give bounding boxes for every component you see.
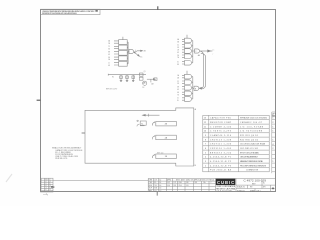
svg-text:3J: 3J — [177, 61, 179, 63]
svg-text:6F: 6F — [177, 52, 179, 54]
alignment tick on left edge — [82, 132, 85, 133]
svg-text:21-B: 21-B — [179, 185, 182, 187]
svg-text:1J: 1J — [108, 63, 110, 65]
svg-text:E: E — [41, 187, 42, 189]
gate B5 — [185, 97, 192, 102]
stub above block C1 — [122, 37, 124, 40]
svg-text:11: 11 — [204, 126, 206, 128]
svg-text:C61 JE105 20AL D4K R1AB: C61 JE105 20AL D4K R1AB — [240, 143, 266, 146]
svg-text:DRN: DRN — [149, 179, 152, 181]
stub above gate B1 — [186, 71, 188, 75]
gate A3 — [185, 49, 192, 54]
svg-text:SMALL ELECTRONIC ASSEMBLY: SMALL ELECTRONIC ASSEMBLY — [52, 146, 82, 149]
svg-text:1/4 100-929AB: 1/4 100-929AB — [240, 125, 264, 128]
svg-text:8: 8 — [205, 139, 206, 141]
svg-text:INTERPRET DWG PER MIL-STD-100: INTERPRET DWG PER MIL-STD-100 LATEST ISS… — [42, 12, 78, 15]
revision mark — [51, 187, 54, 188]
svg-text:CIRCUIT PAD ASSEMBLY: CIRCUIT PAD ASSEMBLY — [240, 156, 259, 159]
input stubs gates A1-A5 — [182, 39, 185, 64]
svg-text:R.L: R.L — [154, 182, 157, 184]
resistor RA1 — [120, 76, 123, 79]
svg-text:5-4: 5-4 — [159, 179, 161, 181]
svg-text:4B: 4B — [177, 78, 179, 80]
output junction node — [134, 52, 135, 53]
parts list table — [203, 115, 269, 171]
svg-text:4: 4 — [135, 50, 136, 52]
svg-text:5-8: 5-8 — [159, 188, 161, 190]
svg-text:K1: K1 — [141, 123, 143, 125]
svg-text:2B: 2B — [108, 43, 110, 45]
logic block C1 — [119, 40, 128, 45]
gate B3 — [185, 86, 192, 91]
svg-text:PER MIL-STD: PER MIL-STD — [55, 158, 68, 160]
wire drop at output — [150, 79, 152, 82]
connector symbol K1 — [137, 120, 146, 126]
svg-text:3E: 3E — [177, 86, 179, 88]
svg-text:185: 185 — [174, 185, 177, 187]
svg-text:7-4: 7-4 — [45, 187, 47, 189]
materials list grid — [173, 180, 216, 182]
output bus wire B — [192, 77, 194, 99]
svg-text:C62 J585 L15 101: C62 J585 L15 101 — [240, 148, 258, 150]
svg-text:CERAMIC 100 4/7: CERAMIC 100 4/7 — [240, 121, 262, 124]
svg-text:MANUFACTURERS BULK DETAIL: MANUFACTURERS BULK DETAIL — [240, 160, 263, 163]
svg-text:REV: REV — [45, 179, 48, 181]
svg-text:5J: 5J — [177, 98, 179, 100]
svg-text:FORM 101: FORM 101 — [237, 190, 245, 192]
combiner gate C6 — [129, 49, 134, 53]
svg-text:R4: R4 — [112, 76, 114, 78]
resistor module R2 — [152, 135, 176, 140]
title strip line — [53, 179, 148, 181]
svg-text:CUBIC: CUBIC — [217, 180, 234, 185]
title block — [148, 178, 276, 192]
svg-text:1/4 94750308B: 1/4 94750308B — [240, 131, 263, 133]
svg-text:13: 13 — [204, 118, 206, 120]
resistor RA3 — [132, 76, 135, 79]
svg-text:12: 12 — [204, 122, 206, 124]
svg-text:6F: 6F — [177, 89, 179, 91]
svg-text:WT: WT — [250, 187, 253, 189]
revision block cell text — [41, 178, 52, 191]
svg-text:PCB 2564-11 AS: PCB 2564-11 AS — [210, 169, 232, 172]
left logic block group — [114, 37, 143, 66]
svg-text:173: 173 — [174, 182, 177, 184]
svg-text:4-2564-32-B P3: 4-2564-32-B P3 — [210, 165, 231, 167]
logic block C5 — [119, 62, 128, 67]
svg-text:SPRAGUE 150D 105 X9020B2: SPRAGUE 150D 105 X9020B2 — [240, 117, 267, 120]
output wire with arrow — [147, 78, 154, 80]
svg-text:2N: 2N — [142, 87, 144, 89]
svg-text:CLAMP40 2-116: CLAMP40 2-116 — [210, 134, 231, 137]
dropper wire 3 — [132, 75, 134, 81]
approval scribbles below border — [43, 193, 48, 196]
svg-text:2: 2 — [205, 165, 206, 167]
svg-text:EPOXY CIRCUIT BOARD: EPOXY CIRCUIT BOARD — [240, 151, 260, 154]
combiner gate A6 — [195, 49, 200, 53]
right section grid — [235, 178, 237, 192]
company address lines — [216, 185, 236, 192]
svg-text:W.B: W.B — [154, 188, 157, 190]
svg-text:R21 R31 Q4 D1: R21 R31 Q4 D1 — [240, 135, 258, 137]
svg-text:P/N COMPONENT BULK SERVICES: P/N COMPONENT BULK SERVICES — [240, 165, 267, 167]
svg-text:100: 100 — [186, 182, 189, 184]
gate A4 — [185, 54, 192, 59]
combiner gate B6 — [194, 86, 199, 90]
capacitor mark 2 — [126, 80, 128, 83]
resistor module R3 — [152, 154, 176, 159]
output wire with arrow — [200, 50, 208, 52]
output bus wire C — [127, 42, 129, 64]
svg-text:8E: 8E — [108, 52, 110, 54]
svg-text:8L: 8L — [177, 100, 179, 102]
svg-text:20-B: 20-B — [179, 182, 182, 184]
input labels top group — [177, 38, 215, 66]
svg-text:2: 2 — [195, 51, 196, 53]
input stubs blocks C1-C5 — [114, 41, 119, 65]
svg-text:6-3: 6-3 — [45, 185, 47, 187]
svg-text:D: D — [41, 185, 42, 187]
fold mark bottom center — [156, 192, 158, 196]
svg-text:1E: 1E — [177, 50, 179, 52]
resistor RA2 — [126, 76, 129, 79]
svg-text:DT: DT — [49, 179, 51, 181]
svg-text:5-12: 5-12 — [167, 182, 170, 184]
drawing number — [237, 180, 274, 193]
svg-text:5-9: 5-9 — [159, 190, 161, 192]
terminal box — [154, 78, 157, 81]
wire fork upper with arrow — [135, 51, 141, 52]
fold mark top center — [157, 6, 159, 9]
svg-text:5: 5 — [205, 152, 206, 154]
svg-text:RL: RL — [49, 187, 51, 189]
svg-text:8-2: 8-2 — [45, 189, 47, 191]
dropper wire 2 — [126, 75, 128, 81]
svg-text:Q1: Q1 — [144, 71, 146, 73]
transistor Q1 — [143, 81, 147, 85]
svg-text:9: 9 — [205, 135, 206, 137]
svg-text:CR29111 1-406: CR29111 1-406 — [210, 144, 231, 146]
svg-text:CAPACITOR FXD: CAPACITOR FXD — [210, 117, 232, 120]
module outline — [82, 108, 194, 166]
wire from combiner A6 down to node B — [201, 53, 206, 89]
capacitor mark 1 — [120, 80, 122, 83]
svg-text:7: 7 — [205, 144, 206, 146]
gate A2 — [185, 44, 192, 49]
qty strip at right border — [272, 112, 276, 173]
bottom gate group — [182, 51, 206, 101]
notes text block — [52, 146, 83, 160]
svg-text:C 90875 4-293: C 90875 4-293 — [210, 131, 231, 133]
labels bias network — [106, 71, 154, 91]
svg-text:10: 10 — [204, 131, 206, 133]
svg-text:BR90674 3-204: BR90674 3-204 — [210, 152, 231, 154]
svg-text:C 20RNE 4-100: C 20RNE 4-100 — [210, 126, 231, 128]
logic block C2 — [119, 45, 128, 50]
gate B4 — [185, 91, 192, 96]
fold mark left middle — [37, 99, 41, 101]
svg-text:4-2: 4-2 — [45, 181, 47, 183]
svg-text:4-2564-31-B P2: 4-2564-31-B P2 — [210, 161, 231, 163]
arrowhead at combiner B6 output — [199, 87, 201, 89]
capacitor mark 3 — [132, 80, 134, 83]
gate A5 — [185, 61, 192, 66]
wire from combiner B6 up to output node — [201, 51, 204, 88]
svg-text:D.K: D.K — [154, 190, 157, 192]
svg-text:SHEET 1 OF 1: SHEET 1 OF 1 — [250, 190, 261, 192]
revision block — [41, 178, 54, 192]
sheet border frame — [41, 10, 276, 192]
svg-text:. . . . . . .: . . . . . . . — [261, 190, 269, 192]
input labels bottom group — [177, 74, 197, 102]
approvals section grid — [154, 178, 173, 192]
smudge bottom-left outside border — [6, 174, 12, 182]
company logo — [216, 179, 236, 185]
svg-text:4: 4 — [205, 157, 206, 159]
svg-text:CONNECTOR: CONNECTOR — [246, 170, 259, 172]
top gate group — [182, 35, 212, 65]
bias resistor RB2 — [139, 77, 143, 80]
svg-text:R22 R30 Q4 D2: R22 R30 Q4 D2 — [240, 139, 258, 141]
svg-text:3: 3 — [205, 161, 206, 163]
svg-text:B: B — [41, 181, 42, 183]
svg-text:RL: RL — [49, 183, 51, 185]
output bus wire A — [192, 41, 195, 63]
gate B1 — [185, 74, 192, 79]
logic block C3 — [119, 51, 128, 56]
svg-text:CR29113 1-408: CR29113 1-408 — [210, 139, 231, 141]
bias resistor RB1 — [139, 73, 143, 76]
input stubs gates B1-B5 — [182, 75, 185, 100]
dropper wire 1 — [120, 75, 122, 81]
svg-text:4-2564-30-B P1: 4-2564-30-B P1 — [210, 157, 231, 159]
svg-text:CR29110 1-405: CR29110 1-405 — [210, 148, 231, 150]
svg-text:5-4: 5-4 — [159, 182, 161, 184]
wire fork lower with arrow — [135, 53, 138, 55]
svg-text:C: C — [41, 183, 42, 185]
gate A1 — [185, 38, 192, 43]
logic block C4 — [119, 56, 128, 61]
resistor module R1 — [152, 121, 176, 126]
direction arrow inside module — [143, 114, 160, 117]
svg-text:CHK: CHK — [149, 182, 152, 184]
input labels left group — [108, 40, 147, 67]
svg-text:929: 929 — [195, 182, 198, 184]
svg-text:4F: 4F — [108, 54, 110, 56]
svg-text:SUP: SUP — [149, 188, 152, 190]
svg-text:REF 100: REF 100 — [157, 153, 163, 155]
svg-text:3B: 3B — [177, 42, 179, 44]
svg-text:REF DES C4 R7: REF DES C4 R7 — [106, 89, 117, 91]
stub above gate A1 — [186, 35, 188, 38]
svg-text:A4: A4 — [198, 54, 200, 57]
svg-text:U.S.A. 92123 DEPT: U.S.A. 92123 DEPT — [216, 189, 233, 192]
notes box — [41, 9, 101, 15]
svg-text:RESISTOR COMP: RESISTOR COMP — [210, 122, 232, 124]
gate B2 — [185, 80, 192, 85]
svg-text:5-14: 5-14 — [167, 185, 170, 187]
svg-text:6: 6 — [205, 148, 206, 150]
bias network bus wire — [108, 73, 157, 85]
svg-text:101: 101 — [186, 185, 189, 187]
svg-text:5-1: 5-1 — [45, 183, 47, 185]
svg-text:5-6: 5-6 — [159, 185, 161, 187]
